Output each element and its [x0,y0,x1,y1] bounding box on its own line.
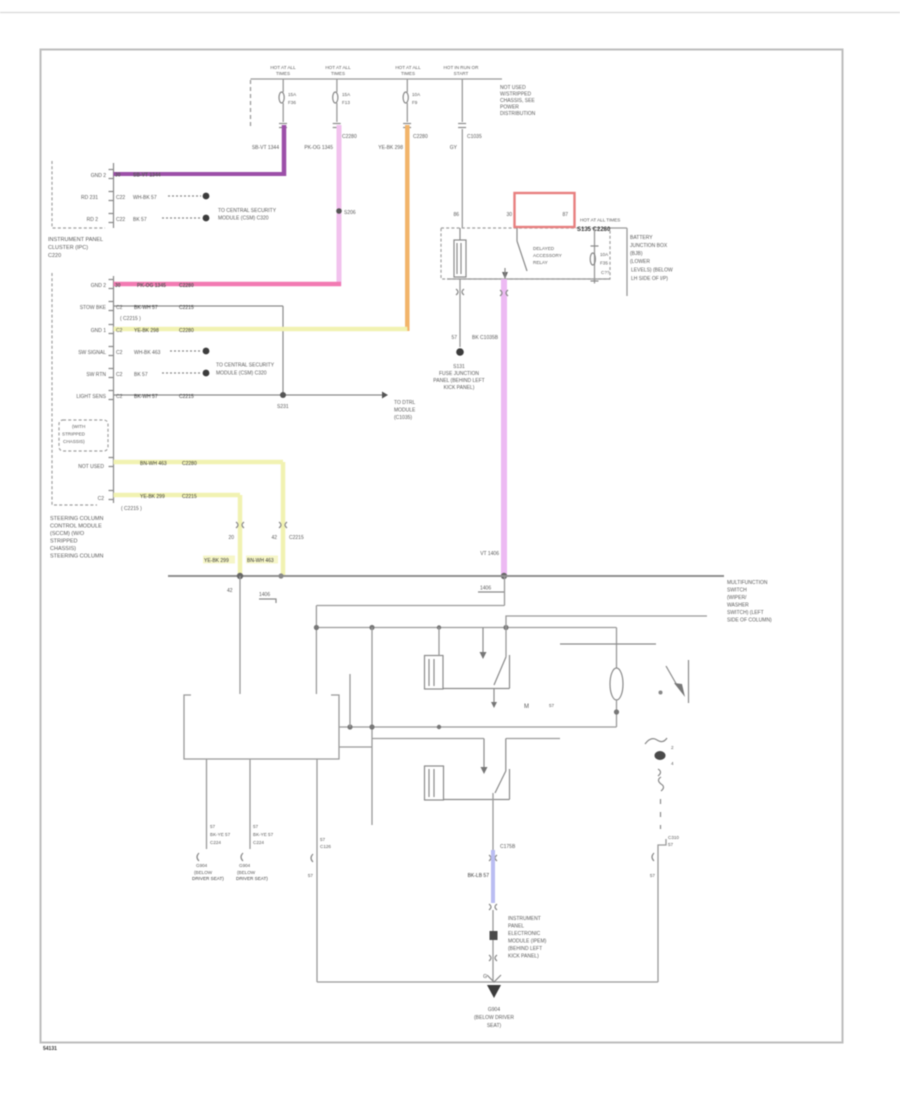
svg-text:TO CENTRAL SECURITY: TO CENTRAL SECURITY [218,208,277,214]
svg-text:HOT AT ALL: HOT AT ALL [270,65,296,70]
svg-text:(C1035): (C1035) [394,415,412,421]
svg-text:MODULE (CSM) C320: MODULE (CSM) C320 [218,216,269,222]
svg-text:SEAT): SEAT) [487,1023,502,1029]
svg-text:BN-WH 463: BN-WH 463 [247,558,274,564]
svg-text:(WIPER/: (WIPER/ [727,595,747,601]
svg-text:FUSE JUNCTION: FUSE JUNCTION [439,371,479,377]
svg-text:CONTROL MODULE: CONTROL MODULE [50,524,102,530]
svg-text:30: 30 [506,212,512,218]
svg-text:NOT USED: NOT USED [500,85,526,91]
svg-text:C??: C?? [601,270,610,275]
svg-text:F9: F9 [412,100,418,105]
svg-text:GND 1: GND 1 [91,328,107,334]
svg-text:SB-VT 1344: SB-VT 1344 [133,173,161,179]
svg-text:4: 4 [671,761,674,766]
svg-text:C220: C220 [48,253,61,259]
svg-text:10A: 10A [412,92,421,97]
svg-text:START: START [454,71,469,76]
svg-text:RD 2: RD 2 [87,217,99,223]
svg-text:STEERING COLUMN: STEERING COLUMN [50,516,104,522]
svg-text:BK 57: BK 57 [133,217,147,223]
svg-text:2: 2 [671,745,674,750]
svg-text:87: 87 [562,212,568,218]
svg-text:SB-VT 1344: SB-VT 1344 [252,145,279,151]
svg-text:C2: C2 [116,372,123,378]
svg-text:INSTRUMENT PANEL: INSTRUMENT PANEL [48,237,103,243]
svg-text:BN-WH 463: BN-WH 463 [140,461,167,467]
svg-text:G904: G904 [239,863,251,868]
svg-text:ELECTRONIC: ELECTRONIC [508,931,541,937]
svg-text:C2280: C2280 [179,283,194,289]
svg-text:BK 57: BK 57 [134,372,148,378]
svg-text:RELAY: RELAY [533,260,548,265]
svg-text:C2280: C2280 [342,134,357,140]
svg-text:YE-BK 298: YE-BK 298 [378,145,403,151]
svg-text:1406: 1406 [480,586,491,592]
svg-text:MODULE (CSM) C320: MODULE (CSM) C320 [216,371,267,377]
svg-text:57: 57 [308,873,314,878]
svg-text:HOT AT ALL: HOT AT ALL [395,65,421,70]
svg-text:S131: S131 [453,364,465,370]
svg-text:C1035: C1035 [467,134,482,140]
svg-text:KICK PANEL): KICK PANEL) [508,954,539,960]
svg-text:RD 231: RD 231 [81,195,98,201]
svg-text:SW SIGNAL: SW SIGNAL [78,350,106,356]
svg-text:M: M [524,704,529,710]
svg-text:57: 57 [451,335,457,341]
svg-text:TIMES: TIMES [401,71,415,76]
svg-text:C2: C2 [116,305,123,311]
svg-text:DRIVER SEAT): DRIVER SEAT) [236,876,268,881]
svg-text:C2280: C2280 [179,328,194,334]
svg-text:BK-YE 57: BK-YE 57 [210,832,231,837]
svg-text:SW RTN: SW RTN [86,372,106,378]
svg-text:PANEL (BEHIND LEFT: PANEL (BEHIND LEFT [433,378,484,384]
svg-text:KICK PANEL): KICK PANEL) [444,385,475,391]
svg-text:LEVELS) (BELOW: LEVELS) (BELOW [631,268,673,274]
svg-text:STEERING COLUMN: STEERING COLUMN [50,554,104,560]
svg-text:57: 57 [320,837,326,842]
svg-text:SIDE OF COLUMN): SIDE OF COLUMN) [727,618,772,624]
svg-text:C310: C310 [668,835,679,840]
svg-text:20: 20 [228,535,234,541]
svg-text:C224: C224 [253,840,264,845]
svg-text:( C2215 ): ( C2215 ) [120,316,141,322]
svg-text:TIMES: TIMES [331,71,345,76]
svg-text:BK C1035B: BK C1035B [472,335,499,341]
svg-text:42: 42 [271,535,277,541]
svg-text:PK-OG 1345: PK-OG 1345 [137,283,166,289]
svg-text:MODULE: MODULE [394,408,416,414]
svg-text:SWITCH: SWITCH [727,588,747,594]
svg-text:YE-BK 299: YE-BK 299 [140,494,165,500]
svg-text:HOT AT ALL: HOT AT ALL [325,65,351,70]
svg-text:GND 2: GND 2 [91,283,107,289]
svg-text:G904: G904 [196,863,208,868]
svg-text:STRIPPED: STRIPPED [62,432,86,437]
svg-text:BK-LB 57: BK-LB 57 [468,873,490,879]
svg-text:YE-BK 298: YE-BK 298 [134,328,159,334]
svg-text:CHASSIS): CHASSIS) [50,546,76,552]
svg-text:NOT USED: NOT USED [78,464,104,470]
svg-text:C2: C2 [98,496,105,502]
svg-text:(BELOW: (BELOW [237,870,256,875]
svg-text:CLUSTER (IPC): CLUSTER (IPC) [48,245,88,251]
svg-text:C2215: C2215 [179,394,194,400]
svg-text:C2215: C2215 [179,305,194,311]
svg-text:YE-BK 299: YE-BK 299 [204,558,229,564]
svg-text:WH-BK 463: WH-BK 463 [134,350,161,356]
svg-text:15A: 15A [342,92,351,97]
svg-text:HOT AT ALL TIMES: HOT AT ALL TIMES [580,218,620,223]
svg-text:ACCESSORY: ACCESSORY [533,253,562,258]
svg-text:INSTRUMENT: INSTRUMENT [508,916,541,922]
svg-text:(BJB): (BJB) [630,251,643,257]
svg-text:CHASSIS): CHASSIS) [63,439,85,444]
svg-text:CHASSIS, SEE: CHASSIS, SEE [500,98,535,104]
svg-text:C2215: C2215 [289,535,304,541]
svg-text:(BEHIND LEFT: (BEHIND LEFT [508,946,542,952]
svg-text:G: G [483,974,487,980]
svg-text:(SCCM) (W/O: (SCCM) (W/O [50,531,85,537]
svg-text:BK-YE 57: BK-YE 57 [253,832,274,837]
svg-text:C2: C2 [116,328,123,334]
svg-text:STRIPPED: STRIPPED [50,539,78,545]
svg-text:( C2215 ): ( C2215 ) [121,506,142,512]
svg-text:(WITH: (WITH [72,424,85,429]
svg-text:PK-OG 1345: PK-OG 1345 [304,145,333,151]
svg-text:57: 57 [549,703,555,708]
svg-text:(BELOW DRIVER: (BELOW DRIVER [474,1015,514,1021]
svg-text:HOT IN RUN OR: HOT IN RUN OR [444,65,480,70]
svg-text:PANEL: PANEL [508,924,524,930]
svg-text:TO CENTRAL SECURITY: TO CENTRAL SECURITY [216,363,275,369]
svg-text:57: 57 [253,824,259,829]
svg-text:SWITCH) (LEFT: SWITCH) (LEFT [727,610,764,616]
svg-text:DELAYED: DELAYED [533,246,555,251]
svg-text:C126: C126 [320,844,331,849]
svg-text:C2280: C2280 [182,461,197,467]
svg-text:GY: GY [450,145,458,151]
svg-text:W/STRIPPED: W/STRIPPED [500,92,532,98]
svg-text:S206: S206 [344,210,356,216]
svg-text:BK-WH 57: BK-WH 57 [134,394,158,400]
svg-text:MULTIFUNCTION: MULTIFUNCTION [727,580,768,586]
svg-text:TIMES: TIMES [276,71,290,76]
svg-text:57: 57 [650,873,656,878]
svg-text:MODULE (IPEM): MODULE (IPEM) [508,939,547,945]
svg-text:VT 1406: VT 1406 [480,551,499,557]
svg-text:JUNCTION BOX: JUNCTION BOX [630,243,668,249]
svg-text:DISTRIBUTION: DISTRIBUTION [500,111,536,117]
svg-text:POWER: POWER [500,105,519,111]
svg-text:G904: G904 [488,1007,500,1013]
svg-text:C2280: C2280 [413,134,428,140]
svg-text:C2: C2 [116,394,123,400]
svg-text:C22: C22 [116,217,125,223]
svg-text:54131: 54131 [43,1046,57,1052]
svg-text:15A: 15A [288,92,297,97]
svg-text:42: 42 [227,588,233,594]
svg-text:F36: F36 [288,100,296,105]
svg-text:STOW BKE: STOW BKE [80,305,107,311]
svg-text:C224: C224 [210,840,221,845]
svg-text:DRIVER SEAT): DRIVER SEAT) [192,876,224,881]
svg-text:57: 57 [668,842,674,847]
svg-text:F35: F35 [600,261,608,266]
svg-text:57: 57 [210,824,216,829]
svg-text:10A: 10A [600,252,609,257]
svg-text:S231: S231 [277,404,289,410]
svg-text:(LOWER: (LOWER [630,259,650,265]
svg-text:(BELOW: (BELOW [194,870,213,875]
svg-text:LH SIDE OF I/P): LH SIDE OF I/P) [631,276,668,282]
svg-text:C2215: C2215 [182,494,197,500]
svg-text:WH-BK 57: WH-BK 57 [133,195,157,201]
svg-text:1406: 1406 [259,592,270,598]
svg-text:BK-WH 57: BK-WH 57 [134,305,158,311]
svg-text:30: 30 [115,173,121,179]
svg-text:TO DTRL: TO DTRL [394,400,416,406]
svg-text:BATTERY: BATTERY [630,235,653,241]
svg-text:86: 86 [453,212,459,218]
svg-text:WASHER: WASHER [727,603,749,609]
svg-text:C22: C22 [116,195,125,201]
svg-text:30: 30 [115,283,121,289]
svg-text:C175B: C175B [500,844,516,850]
svg-text:F13: F13 [342,100,350,105]
svg-text:GND 2: GND 2 [91,173,107,179]
svg-text:LIGHT SENS: LIGHT SENS [76,394,106,400]
svg-text:C2: C2 [116,350,123,356]
